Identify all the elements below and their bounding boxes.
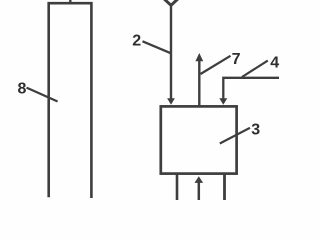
top stub on column 8 (69, 0, 71, 4)
wire: bottom middle line with up arrow into box 3 (198, 183, 201, 201)
svg-text:4: 4 (270, 55, 279, 72)
leader line for 2 (143, 41, 172, 53)
leader line for 7 (201, 56, 231, 74)
svg-text:3: 3 (251, 122, 260, 139)
box unit 3 (161, 106, 237, 173)
svg-text:7: 7 (232, 51, 241, 68)
arrowhead of line 4 into box top (219, 98, 227, 105)
wire: feed line 2 into box 3 (170, 4, 172, 100)
wire: vent line 7 out of box top (198, 61, 200, 106)
column vessel 8 (49, 3, 92, 198)
wire: feed line 4 into box top (223, 78, 279, 100)
arrowhead of line 2 into box top (167, 98, 175, 105)
arrowhead of bottom middle line pointing up (195, 176, 204, 183)
svg-text:8: 8 (18, 81, 27, 98)
leader line for 4 (242, 61, 268, 77)
arrowhead of line 7 pointing up (195, 53, 203, 61)
barbs at top of line 2 (163, 0, 179, 5)
leader line for 3 (220, 128, 250, 144)
leader line for 8 (27, 88, 58, 102)
wire: bottom left line out of box 3 (176, 175, 179, 201)
svg-text:2: 2 (132, 33, 141, 50)
wire: bottom right line out of box 3 (223, 175, 226, 201)
